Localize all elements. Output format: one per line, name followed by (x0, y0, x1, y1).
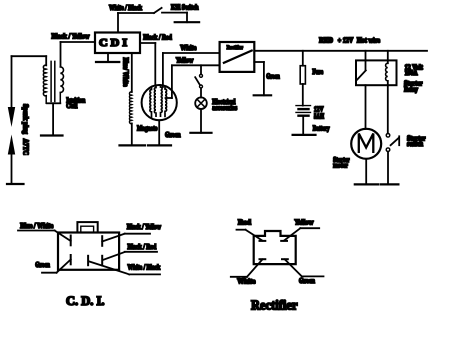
svg-text:Black / Red: Black / Red (128, 243, 157, 251)
svg-text:Green: Green (35, 261, 50, 269)
ground rectifier (254, 94, 271, 96)
wire relay to starter motor (365, 85, 367, 129)
lamp electrical accessories (195, 97, 237, 132)
wire rectifier green (254, 62, 280, 95)
fuse F1 (300, 51, 323, 106)
CDI unit U1 (95, 33, 140, 54)
svg-text:Hot wire: Hot wire (357, 37, 380, 45)
ground starter switch (381, 183, 399, 185)
accessory switch S2 (195, 65, 202, 97)
rectifier connector pin White (231, 259, 265, 286)
wire spark plug feed (12, 55, 47, 57)
CDI connector pin Green (35, 255, 70, 273)
starter switch S3 (386, 134, 425, 185)
svg-text:Black / Red: Black / Red (143, 33, 172, 41)
svg-text:Magneto: Magneto (137, 124, 158, 132)
svg-text:Green: Green (165, 131, 181, 139)
battery BT1 (296, 106, 330, 135)
svg-text:White / Black: White / Black (109, 4, 142, 12)
wire Blue/White with resistor coil (122, 53, 132, 145)
svg-text:Green: Green (299, 277, 315, 285)
svg-text:+ 12V: + 12V (338, 37, 353, 45)
svg-text:Battery: Battery (313, 125, 330, 133)
wire White/Black to kill switch (109, 4, 154, 33)
rectifier connector pin Red (237, 218, 266, 241)
CDI connector pin Blue/White (18, 222, 71, 246)
svg-text:Spark plug A7TC: Spark plug A7TC (21, 104, 29, 155)
svg-text:Yellow: Yellow (176, 57, 194, 65)
svg-text:100A: 100A (405, 69, 418, 77)
CDI connector housing (58, 222, 119, 270)
ground CDI (96, 53, 119, 62)
svg-text:Green: Green (266, 73, 280, 81)
ground starter motor (355, 183, 379, 185)
svg-text:Kill Switch: Kill Switch (171, 4, 199, 12)
magneto G1 (137, 85, 177, 132)
rectifier connector pin Green (282, 259, 324, 285)
wire White magneto to rectifier (163, 44, 220, 87)
svg-text:switch: switch (407, 140, 423, 148)
wire Black/Red CDI to magneto (140, 33, 172, 85)
wire magneto green to ground (159, 120, 180, 145)
CDI connector pin Black/Red (102, 243, 157, 265)
svg-text:C. D. I.: C. D. I. (66, 294, 105, 308)
svg-text:Blue/ White: Blue/ White (122, 58, 130, 87)
svg-text:Black / Yellow: Black / Yellow (52, 33, 91, 41)
svg-text:Fuse: Fuse (312, 68, 323, 76)
svg-text:White / Black: White / Black (128, 264, 161, 272)
svg-text:Black / Yellow: Black / Yellow (127, 223, 162, 231)
wire Yellow magneto to rectifier (166, 57, 220, 98)
svg-text:accesories: accesories (212, 104, 237, 112)
wire +12V hot rail (254, 37, 427, 51)
rectifier U2 (220, 42, 255, 72)
spark plug (7, 56, 29, 184)
svg-text:Yellow: Yellow (295, 218, 315, 226)
svg-text:moter: moter (333, 161, 348, 169)
rectifier connector pin Yellow (281, 218, 319, 241)
ignition coil (41, 56, 85, 135)
starter motor M1 (333, 129, 381, 185)
svg-text:Blue / White: Blue / White (20, 222, 53, 230)
starter relay K1 (356, 51, 423, 94)
svg-text:Relay: Relay (404, 86, 418, 94)
svg-text:Rectifier: Rectifier (251, 298, 298, 313)
svg-text:5AH: 5AH (314, 112, 325, 120)
ground accessories (190, 132, 211, 134)
svg-text:C D I: C D I (99, 37, 127, 49)
ground battery (293, 134, 316, 136)
svg-text:Rectifier: Rectifier (227, 45, 244, 51)
CDI connector pin Black/Yellow (102, 223, 162, 246)
kill switch S1 (154, 4, 199, 23)
svg-text:White: White (180, 44, 196, 52)
ground magneto (148, 144, 171, 146)
svg-text:White: White (237, 278, 255, 286)
wire Black/Yellow CDI to coil (52, 33, 96, 66)
wire relay coil to starter switch (387, 85, 389, 133)
CDI connector pin White/Black (88, 256, 160, 275)
svg-text:RED: RED (319, 37, 333, 45)
rectifier connector housing (254, 231, 296, 264)
ground blue/white (120, 144, 146, 146)
svg-text:Red: Red (238, 218, 251, 226)
svg-text:Coil: Coil (66, 102, 77, 110)
